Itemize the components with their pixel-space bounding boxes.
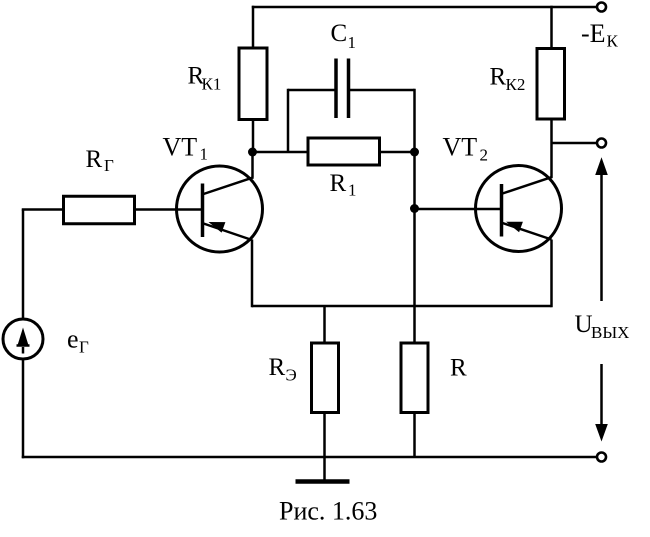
svg-text:ВЫХ: ВЫХ xyxy=(591,323,629,342)
svg-text:R: R xyxy=(269,354,286,381)
svg-text:Э: Э xyxy=(286,366,297,385)
label R1 xyxy=(330,170,357,200)
svg-text:К: К xyxy=(607,32,619,51)
terminal output mid right xyxy=(597,139,606,148)
label -EK xyxy=(581,19,619,51)
node R1 right junction xyxy=(410,148,419,157)
wire RK2 top xyxy=(550,6,553,49)
label R xyxy=(450,355,467,382)
wire RG left xyxy=(22,208,64,211)
label VT2 xyxy=(443,133,489,165)
wire left vertical down to source xyxy=(22,210,25,320)
caption xyxy=(279,497,377,526)
svg-text:Рис. 1.63: Рис. 1.63 xyxy=(279,497,377,526)
svg-text:1: 1 xyxy=(348,33,357,52)
wire C1 left horizontal xyxy=(288,89,336,92)
wire VT2 collector up xyxy=(550,120,553,178)
wire node to VT2 base node xyxy=(413,152,416,209)
ground xyxy=(296,479,350,484)
node VT2 base junction xyxy=(410,204,419,213)
wire top rail xyxy=(252,6,596,9)
resistor RK1 xyxy=(239,48,267,120)
transistor VT1 xyxy=(177,166,263,252)
label RK1 xyxy=(188,63,222,94)
wire ground stem xyxy=(323,457,326,481)
wire output tap xyxy=(552,142,598,145)
wire C1 left vertical xyxy=(287,89,290,152)
wire RK1 top xyxy=(252,6,255,48)
resistor R xyxy=(401,343,428,413)
wire VT2 base from node xyxy=(415,208,502,211)
terminal bottom right xyxy=(597,453,606,462)
svg-text:-E: -E xyxy=(581,19,606,48)
wire emitter connection rail xyxy=(252,305,552,308)
label eG xyxy=(67,325,89,357)
svg-text:VT: VT xyxy=(163,133,198,162)
svg-text:1: 1 xyxy=(348,181,357,200)
resistor RK2 xyxy=(537,49,565,120)
label VT1 xyxy=(163,133,209,164)
arrow Uout down xyxy=(595,364,608,442)
node VT1 collector junction xyxy=(248,148,257,157)
svg-text:R: R xyxy=(330,170,347,197)
resistor RG xyxy=(64,196,135,224)
svg-text:e: e xyxy=(67,325,79,354)
svg-text:C: C xyxy=(331,20,348,47)
wire RE stem top xyxy=(323,306,326,343)
wire source bottom down xyxy=(22,359,25,458)
label RK2 xyxy=(490,64,526,95)
wire node to R1 xyxy=(253,151,309,154)
svg-text:Г: Г xyxy=(79,338,89,357)
wire down to resistor R xyxy=(413,209,416,344)
wire RE stem bottom xyxy=(323,413,326,458)
wire C1 right vertical down to R1 node xyxy=(413,89,416,152)
label RE xyxy=(269,354,297,385)
svg-text:Г: Г xyxy=(104,156,114,175)
resistor RE xyxy=(312,343,339,413)
svg-text:R: R xyxy=(450,355,467,382)
terminal -EK top right xyxy=(597,3,606,12)
svg-text:VT: VT xyxy=(443,133,478,162)
wire R1 to node xyxy=(380,151,415,154)
svg-text:U: U xyxy=(575,311,593,338)
svg-text:К1: К1 xyxy=(202,75,222,94)
wire RG right to VT1 base xyxy=(135,208,203,211)
svg-text:1: 1 xyxy=(200,145,209,164)
resistor R1 xyxy=(308,138,380,165)
wire bottom rail xyxy=(22,456,596,459)
capacitor C1 xyxy=(336,59,349,119)
wire C1 right horizontal xyxy=(349,89,415,92)
wire RK1 bottom xyxy=(252,120,255,153)
label RG xyxy=(86,146,115,175)
wire VT1 collector up to node xyxy=(251,152,254,178)
label Uout xyxy=(575,311,630,342)
transistor VT2 xyxy=(476,166,562,252)
svg-text:2: 2 xyxy=(480,146,489,165)
source eG xyxy=(3,319,43,359)
label C1 xyxy=(331,20,357,52)
svg-text:R: R xyxy=(86,146,103,173)
svg-text:R: R xyxy=(490,64,507,91)
wire VT2 emitter down xyxy=(550,240,553,308)
wire VT1 emitter down xyxy=(251,240,254,308)
svg-text:К2: К2 xyxy=(506,75,526,94)
arrow Uout up xyxy=(595,157,608,301)
wire R bottom xyxy=(413,413,416,458)
